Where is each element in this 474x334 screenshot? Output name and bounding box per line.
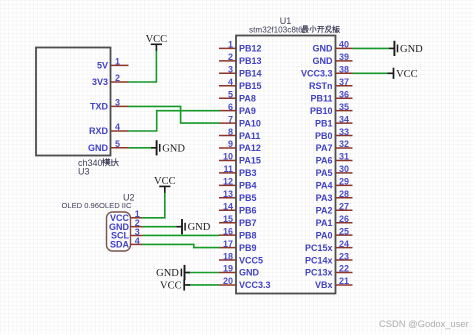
- U1 pin 16 PB8 (left): [219, 226, 257, 240]
- svg-text:VCC3.3: VCC3.3: [239, 280, 271, 290]
- svg-text:16: 16: [223, 226, 233, 236]
- watermark CSDN @Godox_user: [379, 318, 469, 329]
- U1 pin 40 GND (right): [313, 40, 353, 54]
- svg-text:30: 30: [339, 164, 349, 174]
- svg-text:PC15x: PC15x: [305, 243, 333, 253]
- wire TXD U3.3 to U1.7 PA10: [129, 106, 220, 123]
- U1 pin 34 PB1 (right): [315, 114, 353, 128]
- svg-text:36: 36: [339, 89, 349, 99]
- svg-text:21: 21: [339, 276, 349, 286]
- U1 pin 14 PB6 (left): [219, 201, 257, 215]
- svg-text:31: 31: [339, 152, 349, 162]
- svg-text:PA15: PA15: [239, 156, 261, 166]
- U1 pin 27 PA2 (right): [316, 201, 353, 215]
- U1 pin 3 PB14 (left): [219, 65, 262, 79]
- svg-text:24: 24: [339, 239, 349, 249]
- svg-text:VCC: VCC: [160, 280, 182, 291]
- svg-text:14: 14: [223, 201, 233, 211]
- svg-text:17: 17: [223, 239, 233, 249]
- svg-text:6: 6: [228, 102, 233, 112]
- svg-text:PA6: PA6: [316, 156, 333, 166]
- svg-text:34: 34: [339, 114, 349, 124]
- wire U1.40 GND to ground: [353, 47, 390, 49]
- svg-text:PB13: PB13: [239, 56, 262, 66]
- svg-text:RXD: RXD: [89, 126, 109, 136]
- wire SDA U2.4 to U1.17 PB9: [143, 244, 220, 247]
- svg-text:PC13x: PC13x: [305, 268, 333, 278]
- svg-text:5: 5: [228, 89, 233, 99]
- U3 pin 3 TXD: [90, 98, 129, 112]
- svg-text:29: 29: [339, 177, 349, 187]
- svg-text:12: 12: [223, 177, 233, 187]
- ground GND at U2 pin2: [177, 219, 211, 234]
- U1 pin 12 PB4 (left): [219, 177, 257, 191]
- svg-text:VCC: VCC: [154, 176, 176, 187]
- svg-text:stm32f103c8t6: stm32f103c8t6: [249, 26, 303, 35]
- svg-text:3: 3: [115, 98, 120, 108]
- wire U1.20 VCC3.3 to VCC power: [187, 284, 219, 286]
- wire U2.2 GND to ground: [143, 226, 177, 228]
- U1 pin 19 GND (left): [219, 264, 260, 278]
- svg-text:3: 3: [228, 65, 233, 75]
- U1 pin 11 PB3 (left): [219, 164, 257, 178]
- U2 pin 1 VCC: [110, 209, 143, 223]
- svg-text:PB4: PB4: [239, 181, 257, 191]
- U1 pin 8 PA11 (left): [219, 127, 260, 141]
- svg-text:PA2: PA2: [316, 205, 333, 215]
- svg-text:23: 23: [339, 251, 349, 261]
- svg-text:PB6: PB6: [239, 205, 257, 215]
- svg-text:PA11: PA11: [239, 131, 260, 141]
- svg-text:18: 18: [223, 251, 233, 261]
- U1 pin 15 PB7 (left): [219, 214, 257, 228]
- svg-text:PB5: PB5: [239, 193, 257, 203]
- ic U3 ch340 module body: [36, 48, 111, 156]
- svg-text:SDA: SDA: [110, 240, 130, 250]
- svg-text:PB8: PB8: [239, 230, 257, 240]
- svg-text:26: 26: [339, 214, 349, 224]
- svg-text:7: 7: [228, 114, 233, 124]
- svg-text:RSTn: RSTn: [309, 81, 333, 91]
- svg-text:15: 15: [223, 214, 233, 224]
- U1 pin 9 PA12 (left): [219, 139, 261, 153]
- svg-text:PA10: PA10: [239, 118, 261, 128]
- U3 pin 1 5V: [97, 57, 129, 71]
- svg-text:20: 20: [223, 276, 233, 286]
- U3 pin 4 RXD: [89, 122, 129, 136]
- svg-text:PA0: PA0: [316, 230, 333, 240]
- wire SCL U2.3 to U1.16 PB8: [143, 234, 220, 236]
- svg-text:1: 1: [115, 57, 120, 67]
- power VCC above U2: [154, 176, 176, 193]
- svg-text:PB12: PB12: [239, 44, 262, 54]
- svg-text:3V3: 3V3: [92, 77, 108, 87]
- U1 pin 26 PA1 (right): [316, 214, 353, 228]
- svg-text:GND: GND: [313, 56, 334, 66]
- U1 pin 21 VBx (right): [315, 276, 353, 290]
- svg-text:13: 13: [223, 189, 233, 199]
- svg-text:38: 38: [339, 65, 349, 75]
- svg-text:4: 4: [115, 122, 120, 132]
- svg-text:CSDN @Godox_user: CSDN @Godox_user: [379, 318, 469, 329]
- U1 pin 32 PA7 (right): [316, 139, 353, 153]
- svg-text:PA4: PA4: [316, 181, 333, 191]
- svg-text:32: 32: [339, 139, 349, 149]
- U1 pin 6 PA9 (left): [219, 102, 256, 116]
- svg-text:VCC3.3: VCC3.3: [301, 69, 333, 79]
- svg-text:27: 27: [339, 201, 349, 211]
- power VCC above U3: [146, 34, 168, 51]
- U2 pin 2 GND: [109, 218, 143, 232]
- ic U1 stm32f103c8t6 minimal dev board body: [236, 36, 336, 294]
- svg-text:9: 9: [228, 139, 233, 149]
- svg-text:GND: GND: [156, 268, 179, 279]
- U1 pin 13 PB5 (left): [219, 189, 257, 203]
- svg-text:VCC5: VCC5: [239, 255, 263, 265]
- U3 designator label: [78, 166, 90, 176]
- wire U2.1 VCC to VCC power: [143, 193, 165, 218]
- svg-text:10: 10: [223, 152, 233, 162]
- svg-text:5: 5: [115, 139, 120, 149]
- U1 pin 23 PC14x (right): [305, 251, 353, 265]
- svg-text:PB15: PB15: [239, 81, 262, 91]
- U1 pin 5 PA8 (left): [219, 89, 256, 103]
- ic U2 OLED 0.96 IIC body: [107, 212, 131, 251]
- power VCC at U1 pin20: [160, 279, 190, 291]
- U1 pin 33 PB0 (right): [315, 127, 353, 141]
- svg-text:25: 25: [339, 226, 349, 236]
- U1 pin 31 PA6 (right): [316, 152, 353, 166]
- ground GND at U3 pin5: [151, 140, 185, 155]
- svg-text:37: 37: [339, 77, 349, 87]
- svg-text:OLED 0.96OLED IIC: OLED 0.96OLED IIC: [61, 201, 132, 210]
- svg-text:PB1: PB1: [315, 118, 333, 128]
- svg-text:22: 22: [339, 264, 349, 274]
- U3 pin 5 GND: [88, 139, 129, 153]
- U1 pin 30 PA5 (right): [316, 164, 353, 178]
- svg-text:TXD: TXD: [90, 102, 109, 112]
- U2 comment label OLED 0.96OLED IIC: [61, 201, 132, 210]
- svg-text:PB10: PB10: [310, 106, 333, 116]
- U1 pin 28 PA3 (right): [316, 189, 353, 203]
- power VCC at U1 pin38: [388, 68, 418, 80]
- svg-text:1: 1: [228, 40, 233, 50]
- svg-text:PB3: PB3: [239, 168, 257, 178]
- svg-text:40: 40: [339, 40, 349, 50]
- svg-text:GND: GND: [188, 222, 211, 233]
- svg-text:4: 4: [135, 236, 140, 246]
- U1 pin 25 PA0 (right): [316, 226, 353, 240]
- U1 pin 4 PB15 (left): [219, 77, 262, 91]
- svg-text:39: 39: [339, 52, 349, 62]
- wire U3.5 GND to ground: [129, 147, 152, 149]
- svg-text:PB0: PB0: [315, 131, 333, 141]
- svg-text:PB11: PB11: [310, 93, 332, 103]
- svg-text:11: 11: [223, 164, 233, 174]
- svg-text:19: 19: [223, 264, 233, 274]
- svg-text:2: 2: [228, 52, 233, 62]
- wire U3.3V3 to VCC power: [129, 50, 157, 82]
- svg-text:8: 8: [228, 127, 233, 137]
- svg-text:U1: U1: [280, 16, 292, 26]
- svg-text:PA12: PA12: [239, 143, 261, 153]
- U1 pin 18 VCC5 (left): [219, 251, 263, 265]
- U2 designator label: [123, 192, 135, 202]
- U1 pin 38 VCC3.3 (right): [301, 65, 353, 79]
- svg-text:U3: U3: [78, 166, 90, 176]
- svg-text:33: 33: [339, 127, 349, 137]
- U1 pin 10 PA15 (left): [219, 152, 261, 166]
- svg-text:PA9: PA9: [239, 106, 256, 116]
- U1 pin 20 VCC3.3 (left): [219, 276, 271, 290]
- svg-text:GND: GND: [162, 143, 185, 154]
- U1 pin 39 GND (right): [313, 52, 353, 66]
- ground GND at U1 pin40: [389, 41, 423, 56]
- U1 pin 2 PB13 (left): [219, 52, 262, 66]
- U2 pin 4 SDA: [110, 236, 143, 250]
- svg-text:28: 28: [339, 189, 349, 199]
- wire RXD U3.4 to U1.6 PA9: [129, 111, 220, 131]
- svg-text:GND: GND: [313, 44, 334, 54]
- U1 pin 22 PC13x (right): [305, 264, 353, 278]
- U1 comment label stm32f103c8t6(CJK): [249, 26, 339, 35]
- U2 pin 3 SCL: [111, 227, 143, 241]
- svg-text:PB14: PB14: [239, 69, 262, 79]
- svg-text:PB7: PB7: [239, 218, 257, 228]
- wire U1.38 VCC3.3 to VCC power: [353, 72, 388, 74]
- svg-text:VCC: VCC: [396, 69, 418, 80]
- U1 pin 35 PB10 (right): [310, 102, 353, 116]
- svg-text:PC14x: PC14x: [305, 255, 333, 265]
- U1 pin 24 PC15x (right): [305, 239, 353, 253]
- svg-text:PB9: PB9: [239, 243, 257, 253]
- svg-text:35: 35: [339, 102, 349, 112]
- wire U1.19 GND to ground: [187, 272, 219, 274]
- U3 pin 2 3V3: [92, 73, 129, 87]
- U1 pin 7 PA10 (left): [219, 114, 261, 128]
- svg-text:GND: GND: [400, 44, 423, 55]
- U3 comment label ch340(CJK): [78, 158, 118, 168]
- U1 pin 1 PB12 (left): [219, 40, 262, 54]
- U1 pin 37 RSTn (right): [309, 77, 353, 91]
- svg-text:PA7: PA7: [316, 143, 333, 153]
- svg-text:PA3: PA3: [316, 193, 333, 203]
- svg-text:PA5: PA5: [316, 168, 333, 178]
- svg-text:GND: GND: [239, 268, 260, 278]
- svg-text:5V: 5V: [97, 61, 108, 71]
- svg-text:PA1: PA1: [316, 218, 333, 228]
- U1 pin 36 PB11 (right): [310, 89, 352, 103]
- svg-text:VCC: VCC: [146, 34, 168, 45]
- U1 designator label: [280, 16, 292, 26]
- U1 pin 17 PB9 (left): [219, 239, 257, 253]
- svg-text:2: 2: [115, 73, 120, 83]
- svg-text:4: 4: [228, 77, 233, 87]
- U1 pin 29 PA4 (right): [316, 177, 353, 191]
- svg-text:GND: GND: [88, 143, 109, 153]
- ground GND at U1 pin19: [156, 265, 190, 280]
- svg-text:VBx: VBx: [315, 280, 333, 290]
- svg-text:PA8: PA8: [239, 93, 256, 103]
